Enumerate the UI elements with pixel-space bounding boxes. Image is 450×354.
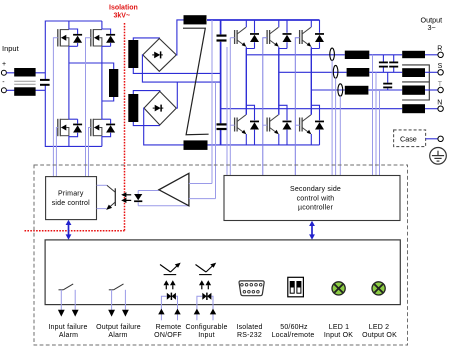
wire bridge leg B bbox=[101, 46, 103, 119]
ground protective earth symbol bbox=[430, 148, 447, 165]
input terminal - bbox=[1, 88, 6, 93]
diode D7 bbox=[315, 33, 324, 42]
inductor L11 neutral bbox=[402, 104, 425, 113]
wire bridge leg A bbox=[68, 46, 70, 119]
optocoupler U2 light arrows bbox=[121, 192, 131, 203]
wire opamp input 2 bbox=[189, 198, 216, 200]
svg-text:Remote: Remote bbox=[156, 324, 182, 331]
label Remote ON OFF bbox=[154, 324, 182, 339]
wire LED anode to opamp bbox=[138, 190, 159, 192]
svg-text:control with: control with bbox=[297, 195, 335, 202]
label LED 1 Input OK bbox=[324, 324, 353, 339]
wire gate Q2 bbox=[86, 38, 91, 177]
svg-text:Case: Case bbox=[400, 135, 417, 144]
inductor L4 negative rail bbox=[184, 140, 208, 150]
wire terminal T bbox=[425, 89, 438, 91]
wire opto collector bbox=[97, 184, 107, 186]
transistor Q2 mosfet top-right bbox=[91, 29, 102, 46]
svg-text:Input: Input bbox=[2, 44, 20, 53]
wire BR2 plus to midpoint bbox=[176, 82, 177, 108]
wire phase leg R bbox=[245, 49, 247, 115]
diode D2 bbox=[106, 34, 115, 43]
wire S between stages bbox=[369, 71, 402, 73]
arrow K2 output 1 bbox=[108, 310, 115, 317]
label Input failure Alarm bbox=[48, 324, 87, 339]
capacitor C4 output R-S bbox=[379, 55, 388, 73]
label Primary side control bbox=[52, 190, 90, 207]
inductor L9 phase S stage2 bbox=[402, 68, 425, 77]
terminal N bbox=[438, 106, 443, 111]
optocoupler U4 light arrows bbox=[164, 280, 176, 289]
wire D2 bbox=[102, 29, 111, 46]
svg-text:Local/remote: Local/remote bbox=[272, 332, 315, 339]
diode D11 opto LED bbox=[134, 191, 142, 206]
current transformer CT2 bbox=[333, 65, 338, 78]
wire winding2 bottom to bridge bbox=[133, 122, 160, 126]
wire output sense lines bbox=[373, 55, 380, 176]
wire Q4 source bbox=[101, 136, 103, 147]
input terminal + bbox=[1, 70, 6, 75]
arrow U4 input 2 bbox=[174, 309, 180, 315]
optocoupler U5 light arrows bbox=[199, 280, 211, 289]
wire Q10 collector and diode bbox=[311, 105, 319, 145]
wire winding1 bottom to bridge bbox=[133, 68, 220, 73]
arrow primary control to interface bbox=[66, 220, 72, 240]
terminal Case bbox=[438, 136, 443, 141]
coupled bracket S-T inductors bbox=[402, 65, 429, 100]
wire opto emitter bbox=[97, 208, 107, 210]
rectifier bridge BR2 diamond bbox=[144, 91, 176, 125]
svg-text:+: + bbox=[2, 61, 6, 68]
optocoupler U5 configurable input bbox=[196, 263, 217, 275]
wire dc plus sense bbox=[211, 20, 213, 184]
wire D3 bbox=[69, 119, 78, 137]
current transformer CT3 bbox=[338, 84, 343, 96]
label Output failure Alarm bbox=[96, 324, 141, 339]
case dashed box bbox=[394, 130, 426, 147]
inductor L7 phase T stage1 bbox=[345, 86, 369, 95]
svg-text:LED 1: LED 1 bbox=[329, 324, 349, 331]
capacitor C2 dc link upper bbox=[217, 36, 227, 41]
arrow K1 output 1 bbox=[58, 310, 65, 317]
arrow K2 output 2 bbox=[122, 310, 129, 317]
svg-text:Output OK: Output OK bbox=[362, 332, 397, 339]
svg-text:side control: side control bbox=[52, 200, 90, 207]
inductor L6 phase S stage1 bbox=[347, 68, 370, 77]
svg-text:3~: 3~ bbox=[428, 23, 436, 32]
wire phase rail R bbox=[246, 54, 344, 56]
capacitor C5 output R-S second bbox=[389, 55, 398, 73]
transistor Q8 igbt bottom R bbox=[235, 115, 247, 134]
op-amp U3 bbox=[159, 173, 189, 206]
label Isolated RS-232 bbox=[236, 324, 262, 339]
transistor Q1 mosfet top-left bbox=[58, 29, 69, 46]
relay K1 input failure contact bbox=[59, 284, 74, 290]
svg-text:ON/OFF: ON/OFF bbox=[154, 332, 182, 339]
wire winding1 top to bridge bbox=[133, 38, 159, 40]
wire U5 input bracket bbox=[197, 296, 213, 320]
wire Q9 collector and diode bbox=[279, 105, 287, 145]
outer dashed enclosure bbox=[34, 165, 408, 345]
wire U4 input bracket bbox=[161, 296, 177, 320]
svg-text:R: R bbox=[437, 46, 442, 53]
wire Q8 collector and diode bbox=[246, 105, 254, 145]
wire winding2 top to bridge bbox=[133, 91, 160, 94]
wire relay K1 leads bbox=[61, 290, 75, 310]
wire terminal Case bbox=[426, 138, 438, 140]
transistor Q6 igbt top S bbox=[267, 27, 279, 46]
transistor Q10 igbt bottom T bbox=[300, 115, 312, 134]
label Secondary side control with ucontroller bbox=[290, 186, 341, 212]
diode D9 bbox=[283, 121, 292, 130]
wire phase rail S bbox=[279, 71, 347, 73]
label 50/60Hz Local remote bbox=[272, 324, 315, 339]
svg-text:Input OK: Input OK bbox=[324, 332, 353, 339]
LED1 indicator bbox=[332, 282, 345, 295]
inductor L5 phase R stage1 bbox=[345, 51, 370, 59]
wire CT3 sense bbox=[339, 96, 341, 175]
svg-text:Primary: Primary bbox=[58, 190, 84, 197]
wire Q1 drain bbox=[68, 21, 70, 30]
wire Q5 collector and diode bbox=[246, 20, 254, 49]
wire phase leg T bbox=[310, 49, 312, 115]
wire phase rail T bbox=[311, 89, 345, 91]
svg-text:Output failure: Output failure bbox=[96, 324, 141, 331]
wire gate Q3 bbox=[56, 128, 57, 177]
svg-text:Input failure: Input failure bbox=[48, 324, 87, 331]
diode pair U5 LEDs antiparallel bbox=[202, 293, 211, 300]
transformer T1 secondary winding 2 bbox=[128, 94, 138, 122]
transistor Q7 igbt top T bbox=[300, 27, 312, 46]
diode D6 bbox=[283, 33, 292, 42]
current transformer CT1 bbox=[330, 48, 335, 60]
diode pair U4 LEDs antiparallel bbox=[167, 293, 176, 300]
arrow secondary control to interface bbox=[309, 221, 315, 240]
wire opamp input 1 bbox=[189, 183, 212, 185]
diode D4 bbox=[106, 124, 115, 133]
svg-text:RS-232: RS-232 bbox=[237, 332, 262, 339]
wire terminal R bbox=[425, 54, 438, 56]
relay K2 output failure contact bbox=[109, 284, 124, 290]
wire gate lines igbt R bbox=[230, 38, 234, 126]
switch S2 dip switch bbox=[288, 277, 304, 297]
isolation barrier red dotted line bbox=[124, 23, 126, 231]
wire CT2 sense bbox=[335, 78, 337, 175]
wire terminal N bbox=[425, 108, 438, 110]
rectifier bridge BR1 diamond bbox=[143, 39, 177, 72]
wire input minus bbox=[6, 89, 45, 91]
terminal R bbox=[438, 52, 443, 57]
wire negative rail bbox=[208, 144, 320, 146]
wire gate Q1 bbox=[53, 38, 57, 177]
capacitor C6 output S-T bbox=[383, 72, 392, 90]
transistor Q4 mosfet bottom-right bbox=[91, 119, 102, 136]
wire positive rail bbox=[207, 19, 320, 21]
svg-text:Isolated: Isolated bbox=[236, 324, 262, 331]
terminal S bbox=[438, 70, 443, 75]
wire Q2 drain bbox=[101, 21, 103, 30]
svg-text:µcontroller: µcontroller bbox=[298, 205, 333, 212]
wire Q3 source bbox=[68, 136, 70, 147]
switch S1 bypass blade bbox=[183, 28, 209, 135]
inductor L10 phase T stage2 bbox=[402, 86, 425, 95]
wire primary winding bottom tap bbox=[102, 97, 114, 101]
capacitor C3 dc link lower bbox=[217, 124, 227, 129]
svg-text:Isolation: Isolation bbox=[109, 5, 138, 12]
LED2 indicator bbox=[372, 282, 385, 295]
label Configurable Input bbox=[185, 324, 227, 339]
wire relay K2 leads bbox=[112, 290, 126, 310]
wire T between stages bbox=[368, 89, 402, 91]
diode D3 bbox=[73, 124, 82, 133]
transistor Q3 mosfet bottom-left bbox=[58, 119, 69, 136]
wire terminal S bbox=[425, 71, 438, 73]
arrow K1 output 2 bbox=[72, 310, 79, 317]
label LED 2 Output OK bbox=[362, 324, 397, 339]
wire LED cathode return bbox=[138, 205, 189, 207]
wire Q7 collector and diode bbox=[311, 20, 319, 49]
secondary side control box bbox=[224, 176, 400, 221]
wire D1 bbox=[69, 29, 78, 46]
svg-text:Alarm: Alarm bbox=[108, 332, 127, 339]
wire CT1 sense bbox=[331, 61, 333, 176]
connector J1 DB9 bbox=[239, 281, 264, 296]
svg-text:Secondary side: Secondary side bbox=[290, 186, 341, 193]
choke core lines bbox=[14, 80, 35, 82]
svg-text:Alarm: Alarm bbox=[59, 332, 78, 339]
wire opamp sense 1 bbox=[215, 82, 217, 199]
transistor Q9 igbt bottom S bbox=[267, 115, 279, 134]
svg-text:Input: Input bbox=[198, 332, 215, 339]
wire BR2 minus to bottom rail bbox=[144, 108, 184, 145]
wire BR1 plus to top rail bbox=[176, 20, 183, 55]
arrow U5 input 2 bbox=[210, 309, 216, 315]
inductor L1 input filter bbox=[14, 68, 35, 77]
svg-text:LED 2: LED 2 bbox=[369, 324, 389, 331]
wire gate lines igbt S bbox=[263, 38, 267, 176]
diode D1 bbox=[73, 34, 82, 43]
wire Q6 collector and diode bbox=[279, 20, 287, 49]
primary side control box bbox=[46, 177, 97, 220]
interface box bbox=[45, 240, 400, 305]
transistor Q5 igbt top R bbox=[235, 27, 247, 46]
arrow U5 input 1 bbox=[194, 309, 200, 315]
svg-text:50/60Hz: 50/60Hz bbox=[280, 324, 308, 331]
wire left bus plus bbox=[45, 21, 102, 79]
diode glyph inside BR1 bbox=[152, 51, 163, 58]
capacitor C1 input bbox=[40, 80, 50, 85]
wire left bus minus bbox=[45, 85, 102, 146]
arrow U4 input 1 bbox=[158, 309, 164, 315]
wire D4 bbox=[102, 119, 111, 137]
wire neutral rail bbox=[221, 108, 403, 110]
svg-text:Configurable: Configurable bbox=[185, 324, 227, 331]
inductor L3 positive rail bbox=[184, 15, 207, 24]
wire input plus bbox=[6, 72, 45, 74]
wire gate Q4 bbox=[89, 128, 91, 177]
wire phase leg S bbox=[278, 49, 280, 115]
diode D8 bbox=[250, 121, 259, 130]
wire dc link string bbox=[220, 20, 222, 145]
optocoupler U4 remote on-off bbox=[160, 263, 181, 275]
inductor L8 phase R stage2 bbox=[402, 51, 425, 58]
wire gate lines igbt T bbox=[295, 38, 299, 176]
transformer T1 secondary winding 1 bbox=[128, 40, 138, 68]
wire R between stages bbox=[369, 54, 402, 56]
inductor L2 input filter bbox=[14, 87, 35, 96]
terminal T bbox=[438, 87, 443, 92]
diode D5 bbox=[250, 33, 259, 42]
diode D10 bbox=[315, 121, 324, 130]
wire BR1 minus to midpoint rail bbox=[142, 55, 220, 82]
svg-text:N: N bbox=[437, 100, 442, 107]
svg-text:S: S bbox=[438, 63, 443, 70]
wire dc sense pair bbox=[227, 38, 230, 176]
transformer T1 primary winding bbox=[109, 69, 118, 97]
diode glyph inside BR2 bbox=[153, 105, 164, 112]
svg-text:3kV~: 3kV~ bbox=[114, 13, 131, 20]
isolation red dotted line horizontal bbox=[25, 230, 125, 232]
optocoupler U2 phototransistor bbox=[106, 185, 115, 210]
wire primary winding top tap bbox=[69, 63, 114, 69]
